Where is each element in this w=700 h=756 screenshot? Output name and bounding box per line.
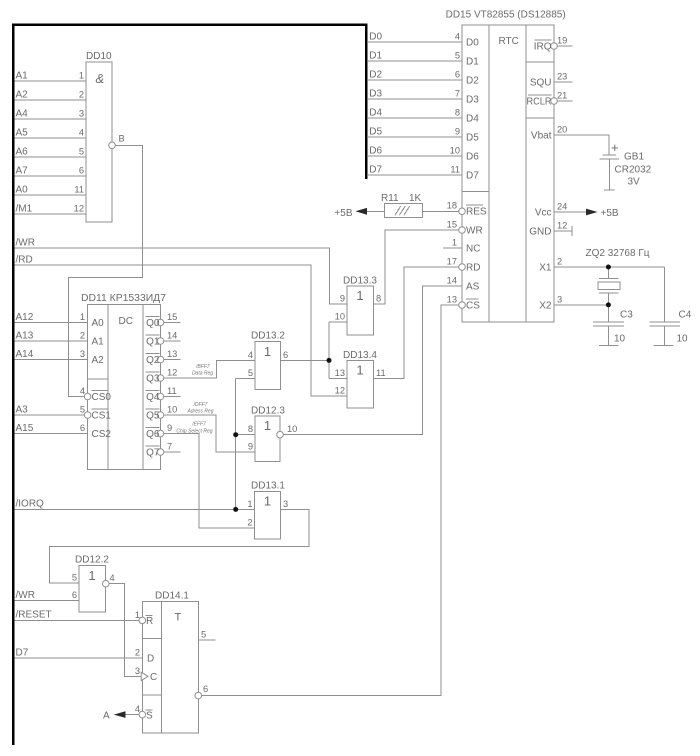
- svg-text:23: 23: [557, 72, 567, 82]
- svg-text:+5B: +5B: [601, 208, 619, 219]
- svg-text:D3: D3: [369, 89, 382, 100]
- svg-text:C4: C4: [679, 310, 692, 321]
- svg-text:15: 15: [447, 220, 457, 230]
- svg-text:A0: A0: [16, 185, 29, 196]
- svg-text:6: 6: [283, 350, 288, 360]
- svg-text:5: 5: [455, 51, 460, 61]
- svg-text:1: 1: [88, 568, 95, 583]
- svg-text:3: 3: [283, 499, 288, 509]
- svg-text:14: 14: [447, 276, 457, 286]
- svg-text:21: 21: [557, 91, 567, 101]
- svg-text:A1: A1: [92, 337, 105, 348]
- svg-text:A15: A15: [16, 423, 34, 434]
- svg-text:3V: 3V: [628, 177, 641, 188]
- svg-text:8: 8: [455, 108, 460, 118]
- svg-text:13: 13: [335, 368, 345, 378]
- svg-text:D7: D7: [369, 165, 382, 176]
- svg-text:NC: NC: [466, 244, 480, 255]
- svg-text:DD14.1: DD14.1: [155, 591, 189, 602]
- svg-text:4: 4: [455, 32, 460, 42]
- svg-text:10: 10: [450, 146, 460, 156]
- svg-text:20: 20: [557, 125, 567, 135]
- svg-text:10: 10: [335, 312, 345, 322]
- svg-text:/DFF7: /DFF7: [193, 402, 208, 408]
- svg-text:C3: C3: [620, 310, 633, 321]
- svg-text:IRQ: IRQ: [534, 42, 552, 53]
- svg-text:CS: CS: [466, 301, 480, 312]
- svg-text:3: 3: [80, 349, 85, 359]
- svg-text:+5B: +5B: [334, 208, 352, 219]
- svg-text:Vcc: Vcc: [535, 208, 552, 219]
- svg-text:R11: R11: [381, 193, 399, 204]
- svg-text:Q5: Q5: [146, 411, 160, 422]
- svg-text:CR2032: CR2032: [615, 165, 652, 176]
- svg-text:/M1: /M1: [16, 204, 33, 215]
- svg-text:+: +: [611, 140, 619, 155]
- svg-text:A: A: [103, 711, 110, 722]
- svg-text:DD13.4: DD13.4: [343, 350, 377, 361]
- svg-text:Data Reg: Data Reg: [192, 371, 213, 377]
- svg-text:RTC: RTC: [499, 36, 519, 47]
- svg-text:9: 9: [248, 442, 253, 452]
- svg-text:7: 7: [167, 442, 172, 452]
- svg-text:D7: D7: [16, 648, 29, 659]
- svg-text:19: 19: [557, 36, 567, 46]
- svg-text:10: 10: [614, 334, 626, 345]
- svg-text:11: 11: [167, 386, 177, 396]
- svg-text:D4: D4: [466, 114, 479, 125]
- svg-text:Q3: Q3: [146, 374, 160, 385]
- svg-text:DD12.3: DD12.3: [251, 406, 285, 417]
- svg-text:AS: AS: [466, 282, 480, 293]
- svg-text:6: 6: [203, 684, 208, 694]
- svg-text:5: 5: [80, 405, 85, 415]
- svg-text:1: 1: [264, 494, 271, 509]
- svg-text:D: D: [147, 654, 154, 665]
- svg-text:CS1: CS1: [92, 411, 112, 422]
- svg-text:13: 13: [447, 295, 457, 305]
- svg-text:4: 4: [248, 350, 253, 360]
- svg-text:/BFF7: /BFF7: [195, 364, 210, 370]
- svg-text:12: 12: [74, 204, 84, 214]
- svg-text:D0: D0: [369, 32, 382, 43]
- svg-text:2: 2: [557, 257, 562, 267]
- svg-text:9: 9: [455, 127, 460, 137]
- svg-text:SQU: SQU: [530, 78, 552, 89]
- svg-text:12: 12: [167, 368, 177, 378]
- svg-text:Q4: Q4: [146, 392, 160, 403]
- svg-text:R: R: [146, 616, 153, 627]
- svg-text:RCLR: RCLR: [527, 97, 552, 108]
- svg-text:2: 2: [80, 331, 85, 341]
- svg-text:17: 17: [447, 257, 457, 267]
- svg-text:Q2: Q2: [146, 355, 160, 366]
- svg-text:5: 5: [248, 368, 253, 378]
- svg-text:8: 8: [248, 424, 253, 434]
- svg-text:A12: A12: [16, 312, 34, 323]
- svg-text:5: 5: [79, 147, 84, 157]
- svg-text:4: 4: [79, 128, 84, 138]
- svg-text:3: 3: [79, 109, 84, 119]
- svg-text:Adress Reg: Adress Reg: [186, 409, 213, 415]
- svg-text:24: 24: [557, 202, 567, 212]
- svg-text:DD15 VT82855 (DS12885): DD15 VT82855 (DS12885): [446, 10, 566, 21]
- svg-text:A4: A4: [16, 109, 29, 120]
- svg-text:CS2: CS2: [92, 429, 112, 440]
- svg-text:DD10: DD10: [86, 51, 112, 62]
- svg-text:3: 3: [135, 666, 140, 676]
- svg-text:14: 14: [167, 331, 177, 341]
- svg-text:/WR: /WR: [16, 590, 35, 601]
- svg-text:1: 1: [452, 238, 457, 248]
- svg-text:CS0: CS0: [92, 392, 112, 403]
- svg-text:A2: A2: [16, 90, 29, 101]
- svg-text:12: 12: [335, 386, 345, 396]
- svg-text:A1: A1: [16, 71, 29, 82]
- svg-text:Chip Select Reg: Chip Select Reg: [176, 429, 212, 435]
- svg-text:1: 1: [264, 418, 271, 433]
- svg-text:DD12.2: DD12.2: [75, 555, 109, 566]
- svg-text:/RD: /RD: [16, 255, 33, 266]
- svg-text:6: 6: [79, 166, 84, 176]
- svg-text:/WR: /WR: [16, 238, 35, 249]
- svg-text:A0: A0: [92, 318, 105, 329]
- svg-text:ZQ2 32768 Гц: ZQ2 32768 Гц: [586, 248, 650, 259]
- svg-text:8: 8: [376, 294, 381, 304]
- svg-text:A6: A6: [16, 147, 29, 158]
- svg-text:9: 9: [340, 294, 345, 304]
- svg-text:1: 1: [356, 363, 363, 378]
- svg-text:D6: D6: [466, 152, 479, 163]
- svg-text:4: 4: [135, 704, 140, 714]
- svg-text:Q6: Q6: [146, 429, 160, 440]
- svg-text:D1: D1: [466, 57, 479, 68]
- svg-text:D1: D1: [369, 51, 382, 62]
- svg-text:A7: A7: [16, 166, 29, 177]
- svg-text:D6: D6: [369, 146, 382, 157]
- svg-text:GND: GND: [529, 227, 551, 238]
- svg-text:Q1: Q1: [146, 337, 160, 348]
- svg-text:&: &: [96, 71, 105, 86]
- svg-text:1: 1: [135, 610, 140, 620]
- svg-text:2: 2: [247, 518, 252, 528]
- svg-text:DC: DC: [119, 316, 133, 327]
- svg-text:11: 11: [376, 368, 386, 378]
- svg-text:5: 5: [72, 573, 77, 583]
- svg-text:/IORQ: /IORQ: [16, 499, 45, 510]
- svg-text:B: B: [119, 134, 125, 144]
- svg-text:X1: X1: [539, 263, 552, 274]
- svg-text:C: C: [150, 672, 157, 683]
- svg-text:GB1: GB1: [624, 152, 644, 163]
- svg-text:D5: D5: [466, 133, 479, 144]
- svg-text:D3: D3: [466, 95, 479, 106]
- svg-text:11: 11: [74, 185, 84, 195]
- svg-text:6: 6: [455, 70, 460, 80]
- svg-text:/RESET: /RESET: [16, 610, 52, 621]
- svg-text:A3: A3: [16, 405, 29, 416]
- svg-text:T: T: [175, 612, 182, 624]
- svg-text:11: 11: [450, 165, 460, 175]
- svg-text:1: 1: [247, 499, 252, 509]
- svg-text:10: 10: [677, 334, 689, 345]
- svg-text:4: 4: [110, 573, 115, 583]
- svg-text:10: 10: [287, 424, 297, 434]
- svg-text:2: 2: [135, 648, 140, 658]
- svg-text:18: 18: [447, 201, 457, 211]
- svg-text:Vbat: Vbat: [531, 131, 552, 142]
- svg-text:D7: D7: [466, 171, 479, 182]
- svg-text:RD: RD: [466, 263, 480, 274]
- svg-text:6: 6: [72, 590, 77, 600]
- svg-text:3: 3: [557, 295, 562, 305]
- svg-text:6: 6: [80, 423, 85, 433]
- svg-text:A5: A5: [16, 128, 29, 139]
- svg-text:DD11 КР1533ИД7: DD11 КР1533ИД7: [81, 293, 166, 304]
- svg-text:15: 15: [167, 312, 177, 322]
- svg-text:D0: D0: [466, 38, 479, 49]
- svg-text:WR: WR: [466, 226, 483, 237]
- svg-text:4: 4: [80, 386, 85, 396]
- svg-text:A2: A2: [92, 355, 105, 366]
- svg-text:D5: D5: [369, 127, 382, 138]
- svg-text:RES: RES: [466, 207, 487, 218]
- svg-text:DD13.1: DD13.1: [251, 481, 285, 492]
- svg-text:13: 13: [167, 349, 177, 359]
- svg-text:D4: D4: [369, 108, 382, 119]
- svg-text:1: 1: [264, 344, 271, 359]
- svg-text:D2: D2: [369, 70, 382, 81]
- svg-text:Q0: Q0: [146, 318, 160, 329]
- svg-text:X2: X2: [539, 301, 552, 312]
- svg-text:DD13.2: DD13.2: [251, 331, 285, 342]
- svg-text:12: 12: [557, 221, 567, 231]
- svg-text:10: 10: [167, 405, 177, 415]
- svg-text:2: 2: [79, 90, 84, 100]
- svg-text:1K: 1K: [409, 193, 422, 204]
- svg-text:A13: A13: [16, 331, 34, 342]
- svg-text:1: 1: [80, 312, 85, 322]
- svg-text:D2: D2: [466, 76, 479, 87]
- svg-text:9: 9: [167, 423, 172, 433]
- svg-text:A14: A14: [16, 349, 34, 360]
- svg-text:5: 5: [201, 630, 206, 640]
- svg-text:Q7: Q7: [146, 448, 160, 459]
- svg-text:7: 7: [455, 89, 460, 99]
- svg-text:1: 1: [79, 71, 84, 81]
- svg-text:/EFF7: /EFF7: [191, 422, 206, 428]
- svg-text:1: 1: [356, 288, 363, 303]
- svg-text:DD13.3: DD13.3: [343, 276, 377, 287]
- svg-text:S: S: [146, 711, 153, 722]
